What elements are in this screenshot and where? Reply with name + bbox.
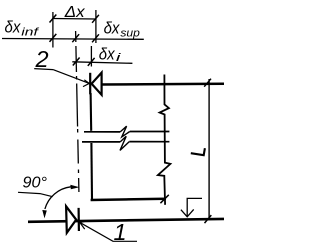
leader shelf for label 2 <box>34 69 53 70</box>
survey mark 1 triangle (bottom) <box>66 206 76 233</box>
tick at L top <box>204 79 211 87</box>
right edge line with break jogs <box>158 75 171 205</box>
arrowhead at mark 1 <box>80 221 87 229</box>
column face line upper segment <box>90 93 93 131</box>
label L (rotated, drawn) <box>191 148 205 155</box>
tick at Delta-x left end <box>50 15 57 23</box>
dimension line delta-x-i <box>72 62 132 64</box>
base line <box>28 219 224 222</box>
extension line to column face <box>90 46 92 67</box>
svg-text:δx: δx <box>99 45 115 64</box>
L dimension line <box>208 79 210 220</box>
svg-text:inf: inf <box>21 27 39 39</box>
leader line from mark 1 <box>80 222 137 241</box>
floor line 2 right segment <box>129 141 169 143</box>
top reference line <box>102 82 225 85</box>
extension line right of tolerance zone <box>95 10 97 43</box>
svg-text:90°: 90° <box>23 175 48 192</box>
column face line lower segment <box>90 143 93 199</box>
svg-text:i: i <box>116 52 122 64</box>
leader under 90 label to arc <box>18 192 53 196</box>
tick on tolerance line at axis <box>72 34 79 42</box>
tick on tolerance line at left bound <box>50 34 57 42</box>
leader line to mark 2 <box>53 70 89 84</box>
floor line 1 break zigzag <box>120 126 130 137</box>
filled arrowhead at arc bottom <box>43 210 47 217</box>
filled arrowhead at arc top <box>71 185 78 189</box>
extension line left of tolerance zone <box>52 12 54 48</box>
floor line 1 left segment <box>84 131 120 133</box>
vertical axis dash-dot line <box>76 31 79 192</box>
90 degree arc <box>45 187 71 209</box>
svg-text:sup: sup <box>120 28 139 40</box>
survey mark 2 triangle (top) <box>92 73 102 95</box>
column bottom thick line <box>91 199 166 200</box>
tick at L bottom <box>205 215 212 223</box>
svg-text:δx: δx <box>104 19 120 38</box>
survey mark 2 bar <box>89 73 91 95</box>
svg-text:2: 2 <box>35 46 49 72</box>
dimension line delta-x-inf / delta-x-sup <box>2 38 144 41</box>
tick on delta-x-i line at axis <box>73 58 80 66</box>
svg-text:δx: δx <box>5 18 21 37</box>
svg-text:1: 1 <box>114 219 127 245</box>
tick on delta-x-i line at column face <box>88 58 95 66</box>
tick at Delta-x right end <box>92 15 99 23</box>
floor line 2 left segment <box>82 141 120 143</box>
floor line 2 break zigzag <box>120 136 129 150</box>
tick at column bottom right end <box>160 195 168 203</box>
tick on tolerance line at right bound <box>92 34 99 42</box>
open arrowhead down at base <box>181 209 194 216</box>
arrowhead at mark 2 <box>83 80 89 87</box>
svg-text:Δx: Δx <box>64 4 86 21</box>
survey mark 1 bar <box>77 208 80 231</box>
floor line 1 right segment <box>130 131 170 133</box>
dimension line Delta-x <box>53 18 96 21</box>
bent leader to base level <box>187 198 202 216</box>
